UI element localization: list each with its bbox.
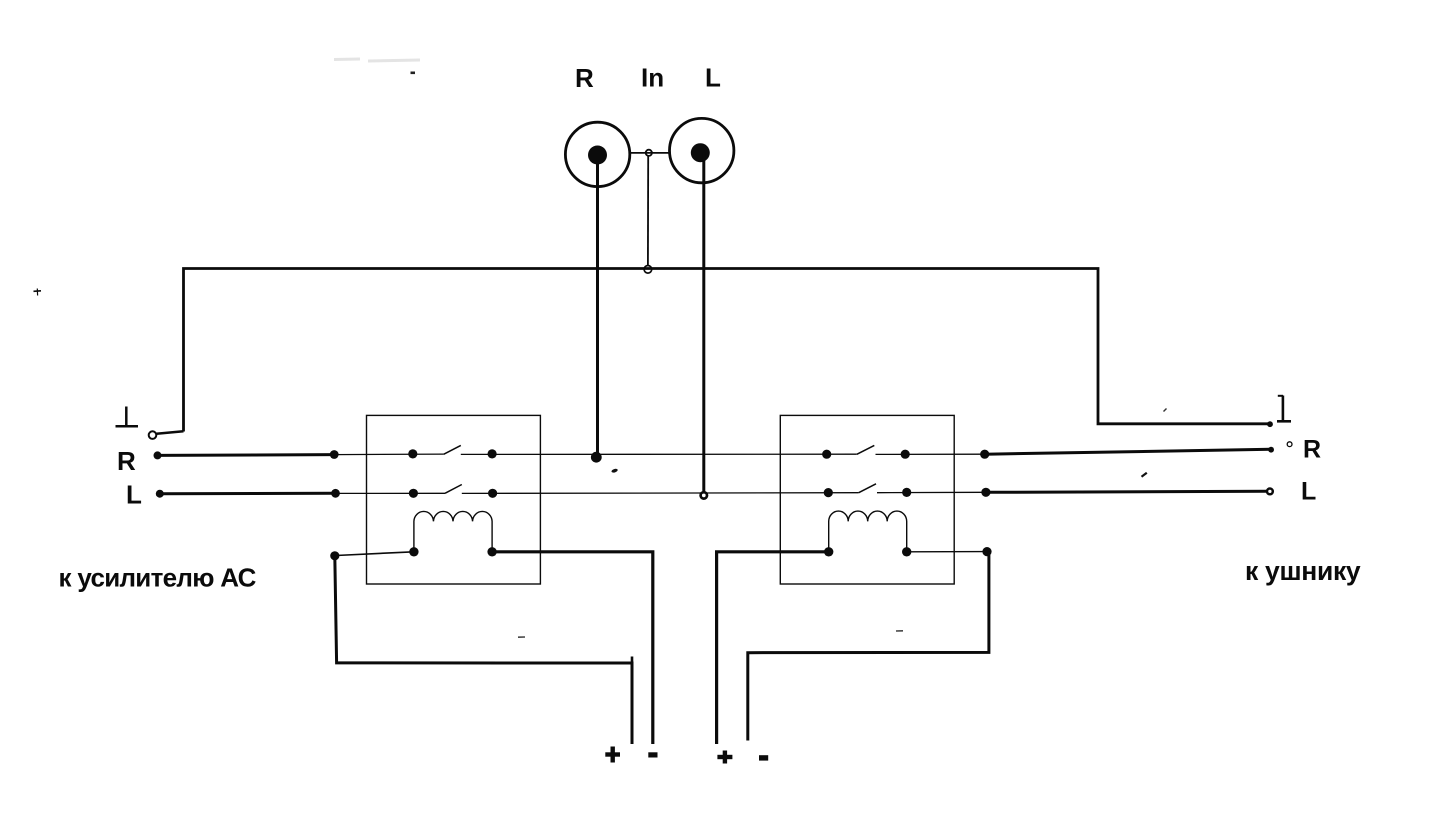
wire right battery minus bbox=[748, 552, 989, 741]
plus symbol left battery bbox=[605, 747, 620, 763]
svg-text:к ушнику: к ушнику bbox=[1245, 556, 1361, 586]
junction dot L right bbox=[981, 488, 990, 497]
terminal dot L left bbox=[156, 490, 164, 498]
stray dark dash top center bbox=[411, 72, 416, 75]
coil K1 bbox=[414, 511, 492, 551]
wire L left (thick) bbox=[160, 492, 336, 495]
relay K1 box bbox=[367, 415, 541, 584]
relay K2 box bbox=[780, 415, 954, 584]
RCA jack R (outer shell) bbox=[565, 122, 629, 186]
coil dot K2 left bbox=[824, 547, 833, 556]
wire L line thin (right section) bbox=[877, 491, 986, 493]
minus symbol right battery bbox=[759, 755, 768, 760]
junction dot left battery plus bbox=[330, 551, 339, 560]
contact dot K2 L right bbox=[902, 488, 911, 497]
wire left battery minus bbox=[492, 552, 653, 744]
stray smudge top center bbox=[334, 59, 420, 61]
RCA jack L (center pin) bbox=[691, 143, 710, 162]
wire L line thin (middle section) bbox=[462, 492, 859, 495]
coil dot K2 right bbox=[902, 547, 911, 556]
wire between jack shells bbox=[630, 152, 671, 154]
junction dot ground right end bbox=[1267, 421, 1273, 427]
stray mark above K2 box bbox=[1164, 409, 1167, 412]
stray dash lower right bbox=[896, 630, 903, 632]
switch blade K1 L bbox=[445, 485, 462, 494]
contact dot K1 R left bbox=[408, 449, 417, 458]
wire R line thin (middle section) bbox=[461, 453, 857, 455]
wire In vertical drop bbox=[647, 156, 649, 266]
wire to left ground terminal bbox=[157, 431, 184, 434]
junction dot R left bbox=[330, 450, 339, 459]
wire R line thin (left section) bbox=[334, 453, 443, 456]
ground symbol left bbox=[116, 407, 139, 427]
svg-text:L: L bbox=[126, 480, 142, 510]
wire coil K2 right lead out bbox=[907, 551, 987, 553]
contact dot K1 R right bbox=[488, 449, 497, 458]
coil K2 bbox=[829, 511, 907, 552]
coil dot K1 right bbox=[487, 547, 496, 556]
svg-text:In: In bbox=[641, 63, 664, 93]
wire ground bus top bbox=[184, 269, 1271, 432]
plus symbol right battery bbox=[717, 751, 732, 764]
svg-text:R: R bbox=[1303, 436, 1321, 464]
svg-text:R: R bbox=[575, 63, 594, 93]
stray mark near right R wire bbox=[1142, 473, 1147, 477]
switch blade K2 R bbox=[857, 445, 875, 454]
wire left battery plus bbox=[335, 556, 632, 744]
wire R line thin (right section) bbox=[876, 453, 985, 455]
contact dot K2 L left bbox=[824, 488, 833, 497]
junction dot L left bbox=[331, 489, 340, 498]
terminal dot R left bbox=[154, 451, 162, 459]
node ring L line / RCA L wire bbox=[701, 492, 707, 498]
switch blade K1 R bbox=[444, 445, 461, 454]
wire from RCA L pin down to L line bbox=[702, 153, 705, 492]
wire from RCA R pin down to R line bbox=[596, 155, 599, 454]
terminal circle L right bbox=[1267, 489, 1273, 495]
svg-text:к усилителю АС: к усилителю АС bbox=[59, 563, 257, 593]
stray mark below R line mid bbox=[611, 468, 618, 473]
contact dot K1 L left bbox=[409, 489, 418, 498]
terminal circle left ground bbox=[149, 431, 157, 439]
wire left battery plus corner tick bbox=[631, 657, 634, 664]
wire L line thin (left section) bbox=[336, 492, 446, 494]
RCA jack L (outer shell) bbox=[670, 118, 734, 182]
wire coil K1 left lead out bbox=[336, 552, 414, 556]
ground symbol right bbox=[1277, 396, 1291, 422]
contact dot K2 R right bbox=[901, 450, 910, 459]
svg-text:L: L bbox=[1301, 478, 1316, 506]
switch blade K2 L bbox=[859, 484, 876, 493]
stray mark top left edge bbox=[34, 289, 42, 296]
wire R right (thick) bbox=[985, 449, 1271, 454]
junction dot R right bbox=[980, 450, 989, 459]
wire L right (thick) bbox=[986, 491, 1267, 492]
minus symbol left battery bbox=[648, 752, 657, 757]
node In to ground bus bbox=[644, 266, 652, 274]
wire right battery plus bbox=[717, 552, 829, 744]
svg-text:L: L bbox=[705, 63, 721, 93]
contact dot K2 R left bbox=[822, 450, 831, 459]
terminal dot R right bbox=[1268, 447, 1274, 453]
junction dot R line / RCA R wire bbox=[591, 452, 602, 463]
coil dot K1 left bbox=[409, 547, 418, 556]
junction dot right battery minus bbox=[982, 547, 991, 556]
wire R left (thick) bbox=[158, 453, 335, 457]
RCA jack R (center pin) bbox=[588, 146, 607, 165]
contact dot K1 L right bbox=[488, 489, 497, 498]
node on jack shell wire bbox=[646, 150, 652, 156]
stray dash lower left bbox=[518, 636, 525, 638]
svg-text:R: R bbox=[117, 446, 136, 476]
terminal circle R right bbox=[1287, 442, 1292, 447]
